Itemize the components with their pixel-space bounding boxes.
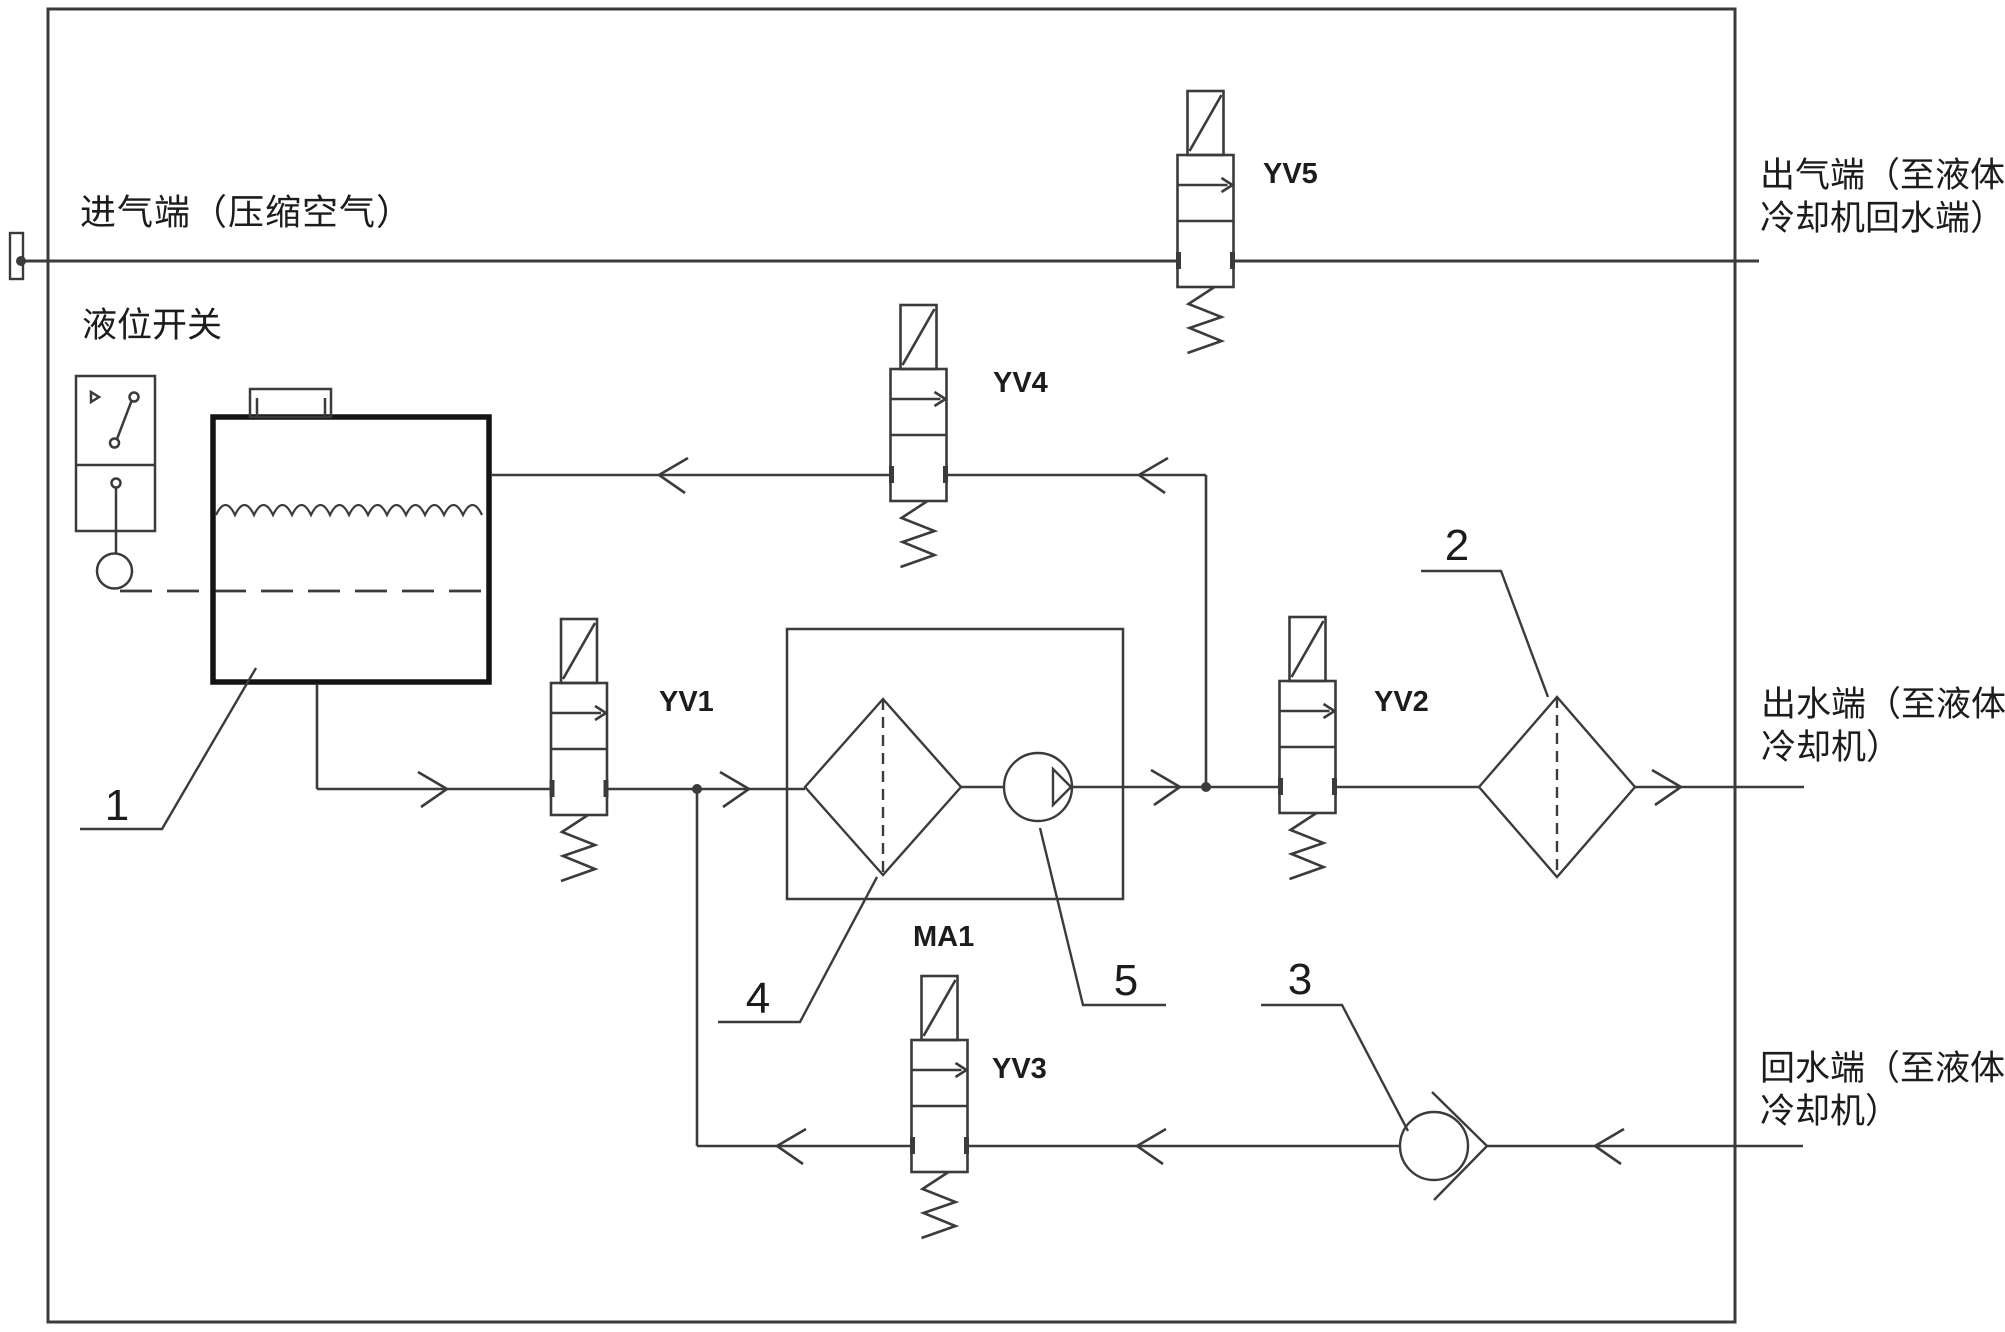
label 出水端 line2 — [1762, 729, 1876, 762]
junction node pump outlet — [1201, 782, 1211, 792]
solenoid valve YV3 — [912, 976, 968, 1238]
wire tank to YV4 — [491, 474, 890, 477]
wire pump outlet — [1072, 786, 1280, 789]
arrow flow left return — [777, 1129, 806, 1164]
pump 5 — [1004, 753, 1072, 821]
svg-text:YV3: YV3 — [992, 1053, 1047, 1085]
leader line label 2 — [1421, 571, 1548, 697]
wire return line left segment — [697, 1145, 911, 1148]
arrow flow left to tank — [659, 458, 688, 493]
solenoid valve YV2 — [1280, 617, 1336, 879]
wire tank outlet to YV1 — [317, 788, 551, 791]
wire YV1 to junction — [607, 788, 805, 791]
check valve 3 — [1400, 1092, 1487, 1200]
level switch — [76, 376, 155, 554]
leader line label 5 — [1040, 828, 1166, 1005]
label 出气端 line2 — [1761, 200, 1980, 233]
label 回水端 line1 — [1763, 1050, 2004, 1083]
wire tank bottom outlet vertical — [316, 684, 319, 789]
filter 2 diamond — [1479, 697, 1635, 877]
wire return inlet — [1487, 1145, 1803, 1148]
wire gas line YV5 to outlet — [1234, 260, 1759, 263]
label 进气端（压缩空气） — [81, 194, 387, 228]
arrow flow right to filter — [720, 772, 749, 807]
leader line label 3 — [1261, 1005, 1408, 1131]
svg-text:YV1: YV1 — [659, 686, 714, 718]
wire YV3 to check valve — [968, 1145, 1400, 1148]
level switch float — [97, 554, 132, 589]
solenoid valve YV4 — [891, 305, 947, 567]
svg-text:MA1: MA1 — [913, 921, 974, 953]
wire riser junction to YV4 line — [1205, 475, 1208, 787]
arrow flow right to YV1 — [418, 772, 447, 807]
label 出水端 line1 — [1765, 686, 2005, 719]
svg-text:1: 1 — [105, 781, 129, 830]
label 液位开关 — [83, 307, 220, 340]
svg-text:4: 4 — [746, 974, 770, 1023]
wire junction riser down — [696, 789, 699, 1146]
wire gas line inlet to YV5 — [21, 260, 1177, 263]
svg-text:2: 2 — [1445, 521, 1469, 570]
filter-pump unit box — [787, 629, 1123, 899]
label 出气端 line1 — [1764, 157, 2004, 190]
filter 4 diamond — [805, 699, 961, 875]
solenoid valve YV5 — [1178, 91, 1234, 353]
wire water outlet — [1635, 786, 1804, 789]
svg-text:YV2: YV2 — [1374, 686, 1429, 718]
tank 1 body — [213, 417, 489, 682]
arrow flow left return inlet — [1595, 1129, 1624, 1164]
wire YV2 to filter 2 — [1335, 786, 1479, 789]
gas inlet node dot — [16, 256, 26, 266]
leader line label 4 — [718, 877, 877, 1022]
arrow flow left to YV3 — [1137, 1129, 1166, 1164]
arrow flow right after box — [1151, 770, 1180, 805]
solenoid valve YV1 — [551, 619, 607, 881]
junction node after YV1 — [692, 784, 702, 794]
arrow flow right water outlet — [1652, 770, 1681, 805]
svg-text:5: 5 — [1114, 956, 1138, 1005]
leader line label 1 — [80, 668, 256, 829]
dashed low-level line — [120, 590, 486, 593]
wire YV4 to riser — [947, 474, 1206, 477]
label 回水端 line2 — [1761, 1093, 1875, 1126]
svg-text:YV5: YV5 — [1263, 158, 1318, 190]
svg-text:YV4: YV4 — [993, 367, 1048, 399]
arrow flow left to YV4 — [1139, 458, 1168, 493]
tank filler cap — [250, 389, 331, 417]
svg-text:3: 3 — [1288, 955, 1312, 1004]
gas inlet port fitting — [10, 233, 23, 279]
liquid level wavy line — [216, 505, 482, 515]
wire filter to pump — [961, 786, 1004, 789]
